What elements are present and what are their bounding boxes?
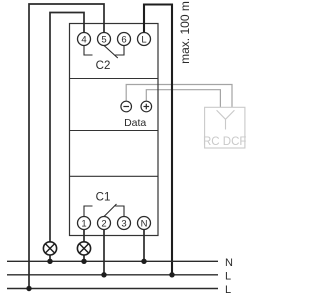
junction terminal N / N line — [141, 259, 146, 264]
svg-text:5: 5 — [101, 34, 106, 45]
terminal 2 — [98, 217, 111, 230]
terminal 1 — [78, 217, 91, 230]
wire: terminal 2 down to middle L line — [103, 230, 105, 275]
svg-text:C1: C1 — [96, 192, 111, 204]
junction terminal 5 wire / bottom L line — [26, 286, 31, 291]
contact C1 fixed side from terminal 3 — [115, 206, 124, 217]
antenna symbol — [217, 110, 235, 129]
wire: RC DCF antenna plus lead (gray) — [146, 90, 220, 108]
divider below C2 section — [70, 78, 159, 80]
terminal L — [138, 33, 151, 46]
svg-text:1: 1 — [81, 218, 86, 229]
svg-text:2: 2 — [101, 218, 106, 229]
contact C1 fixed side from terminal 1 — [84, 206, 93, 217]
divider below Data section — [70, 130, 159, 132]
terminal Data plus — [141, 101, 152, 112]
lamp E2 — [77, 242, 90, 255]
svg-text:6: 6 — [121, 34, 126, 45]
terminal 5 — [98, 33, 111, 46]
RC DCF receiver box U2 — [205, 107, 245, 148]
terminal 3 — [118, 217, 131, 230]
svg-text:RC DCF: RC DCF — [203, 136, 246, 148]
contact C1 lever from terminal 2 — [104, 204, 117, 217]
svg-text:3: 3 — [121, 218, 126, 229]
junction lamp E1 / N — [47, 259, 52, 264]
mains line L (bottom) — [7, 288, 218, 290]
wire: terminal L up over to right and down to middle L line — [144, 5, 172, 275]
svg-text:N: N — [225, 257, 233, 269]
lamp E1 — [43, 242, 56, 255]
wire: lamp E2 bottom stub to N line — [83, 255, 85, 261]
svg-text:N: N — [141, 218, 148, 229]
mains line L (middle) — [7, 274, 218, 276]
svg-text:C2: C2 — [96, 60, 111, 72]
contact C2 lever from terminal 5 — [104, 46, 118, 59]
wire: RC DCF antenna minus lead (gray) — [126, 85, 232, 108]
mains line N — [7, 260, 218, 262]
wire: terminal 4 to lamp E1 (inner left) — [50, 13, 84, 242]
wire: terminal 5 to bottom L line (outer left) — [29, 4, 104, 289]
svg-text:L: L — [225, 284, 231, 296]
terminal N — [138, 217, 151, 230]
svg-text:Data: Data — [124, 117, 146, 129]
svg-text:L: L — [225, 270, 231, 282]
terminal 6 — [118, 33, 131, 46]
wire: terminal 1 to lamp E2 — [83, 230, 85, 242]
svg-text:4: 4 — [81, 34, 86, 45]
terminal Data minus — [121, 101, 132, 112]
junction terminal 2 / L line — [101, 272, 106, 277]
device box (time switch) — [70, 24, 159, 236]
contact C2 fixed side from terminal 6 — [115, 46, 124, 56]
wire: lamp E1 bottom stub to N line — [49, 255, 51, 261]
svg-text:L: L — [141, 34, 146, 45]
terminal 4 — [78, 33, 91, 46]
contact C2 fixed side from terminal 4 — [84, 46, 93, 56]
divider above C1 section — [70, 175, 159, 177]
junction L wire / L line — [169, 272, 174, 277]
wire: terminal N down to N line — [143, 230, 145, 262]
svg-text:max. 100 m: max. 100 m — [178, 1, 192, 64]
junction lamp E2 / N — [81, 259, 86, 264]
